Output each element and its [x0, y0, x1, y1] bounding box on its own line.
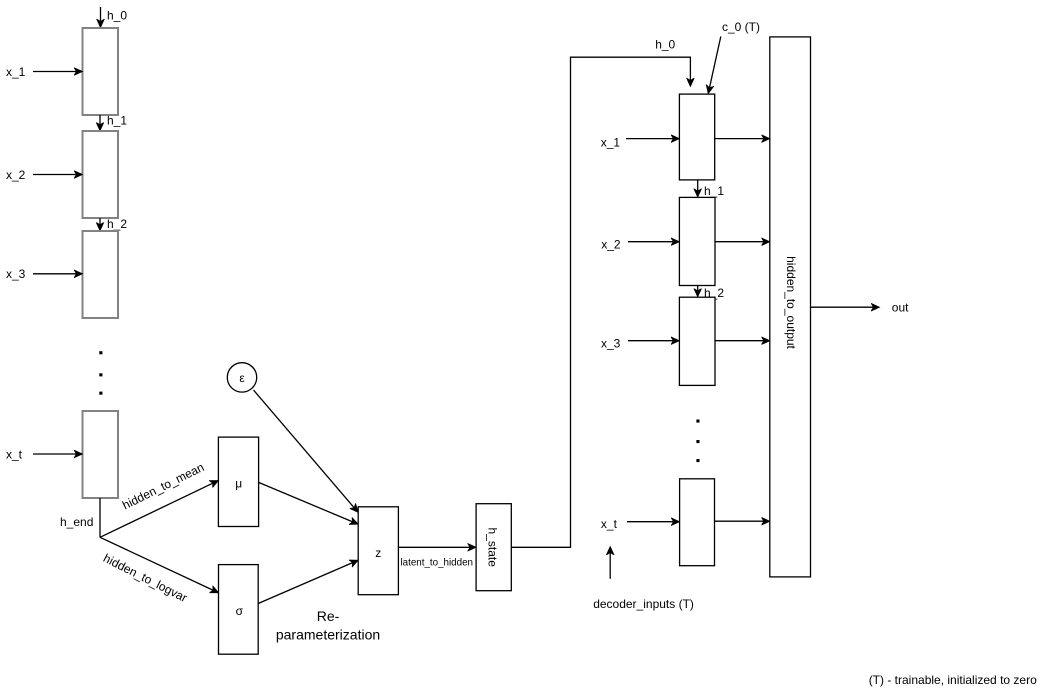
svg-text:h_0: h_0: [107, 9, 127, 23]
wire x_2 decoder arrow: [628, 241, 679, 243]
decoder cell 4 (x_t): [680, 479, 715, 566]
svg-text:decoder_inputs (T): decoder_inputs (T): [593, 597, 694, 611]
wire h_2 arrow: [99, 218, 101, 230]
svg-text:x_2: x_2: [601, 238, 621, 252]
svg-text:x_t: x_t: [601, 517, 618, 531]
decoder cell 3: [679, 297, 715, 385]
svg-text:Re-: Re-: [317, 608, 340, 624]
wire decoder4 to output arrow: [715, 520, 770, 522]
encoder cell 4 (x_t): [83, 411, 119, 498]
svg-text:(T) - trainable, initialized t: (T) - trainable, initialized to zero: [869, 673, 1037, 687]
svg-text:x_3: x_3: [601, 336, 621, 350]
svg-text:h_0: h_0: [655, 37, 675, 51]
wire x_1 decoder arrow: [626, 138, 679, 140]
encoder ellipsis dots: [99, 351, 102, 395]
wire latent_to_hidden arrow: [398, 546, 475, 548]
svg-text:x_1: x_1: [601, 136, 621, 150]
svg-text:parameterization: parameterization: [276, 626, 380, 642]
wire hidden_to_mean arrow: [100, 481, 218, 538]
decoder cell 1: [679, 94, 714, 180]
svg-text:ε: ε: [239, 371, 245, 385]
wire hidden_to_logvar arrow: [100, 537, 218, 592]
wire x_t arrow: [33, 453, 82, 455]
box sigma: [219, 565, 259, 655]
svg-text:h_end: h_end: [60, 515, 93, 529]
svg-text:σ: σ: [236, 604, 244, 618]
wire h_0 into encoder cell 1: [100, 7, 102, 27]
svg-text:hidden_to_output: hidden_to_output: [784, 256, 798, 349]
svg-text:μ: μ: [235, 477, 242, 491]
node epsilon circle: [227, 363, 256, 392]
label Re-parameterization: [276, 608, 380, 642]
decoder cell 2: [679, 197, 715, 285]
encoder cell 2: [83, 131, 119, 218]
wire decoder3 to output arrow: [715, 340, 769, 342]
wire h_state to decoder h_0 route: [511, 57, 690, 547]
wire h_2 decoder arrow: [697, 286, 699, 297]
wire mu to z arrow: [259, 482, 358, 524]
box h_state: [476, 504, 511, 591]
wire h_end stem: [99, 498, 101, 537]
wire epsilon to z arrow: [254, 390, 358, 512]
svg-text:c_0 (T): c_0 (T): [722, 20, 760, 34]
wire h_1 decoder arrow: [697, 180, 699, 197]
svg-text:h_state: h_state: [485, 528, 499, 568]
wire decoder2 to output arrow: [715, 241, 769, 243]
wire c_0 arrow: [708, 37, 721, 94]
svg-text:x_3: x_3: [6, 267, 26, 281]
wire sigma to z arrow: [258, 560, 358, 603]
encoder cell 3: [83, 231, 119, 318]
box mu: [218, 437, 258, 526]
wire x_3 decoder arrow: [628, 340, 679, 342]
svg-text:out: out: [892, 301, 909, 315]
wire x_1 arrow: [33, 71, 82, 73]
decoder ellipsis dots: [696, 420, 699, 463]
wire x_3 arrow: [33, 273, 82, 275]
svg-text:x_1: x_1: [6, 65, 26, 79]
svg-text:h_2: h_2: [107, 217, 127, 231]
svg-text:h_1: h_1: [107, 114, 127, 128]
wire out arrow: [811, 306, 880, 308]
box hidden_to_output: [770, 37, 811, 577]
svg-text:latent_to_hidden: latent_to_hidden: [401, 558, 474, 569]
svg-text:z: z: [375, 546, 381, 560]
wire decoder_inputs arrow: [609, 547, 611, 579]
wire x_t decoder arrow: [627, 521, 679, 523]
wire h_1 arrow: [99, 115, 101, 130]
wire decoder1 to output arrow: [715, 138, 770, 140]
svg-text:x_t: x_t: [6, 447, 23, 461]
svg-text:h_1: h_1: [704, 184, 724, 198]
box z: [358, 507, 398, 595]
encoder cell 1: [83, 28, 119, 115]
wire x_2 arrow: [33, 174, 82, 176]
svg-text:x_2: x_2: [6, 168, 26, 182]
